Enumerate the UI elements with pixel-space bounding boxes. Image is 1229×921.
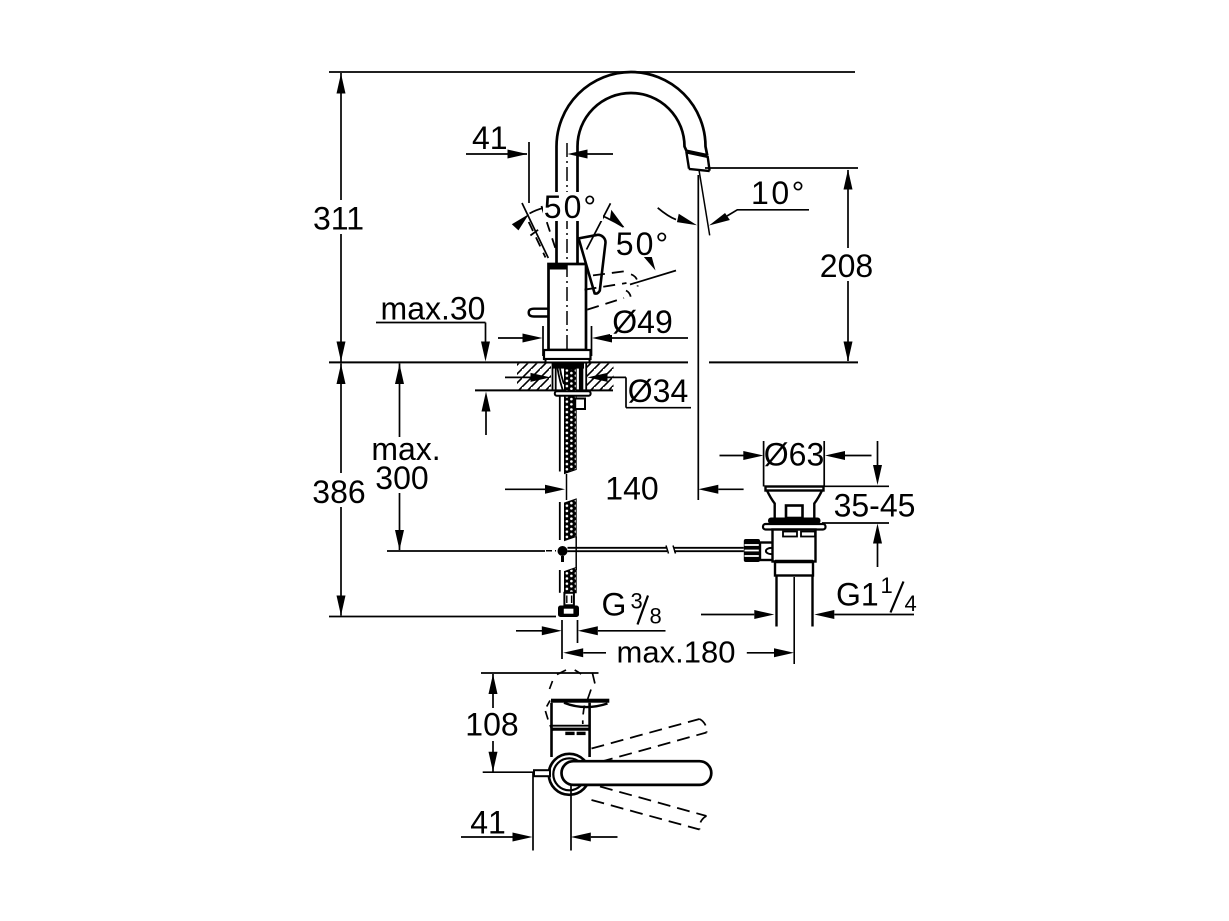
dimension 41 (bottom) bbox=[461, 773, 618, 851]
drain centerline extension bbox=[793, 577, 795, 664]
svg-text:Ø63: Ø63 bbox=[764, 437, 824, 473]
label 35-45 bbox=[834, 488, 916, 524]
label 41 top bbox=[472, 120, 508, 156]
right dashed lever positions bbox=[585, 271, 638, 310]
label 10 deg bbox=[751, 175, 807, 211]
svg-text:1: 1 bbox=[881, 573, 893, 598]
faucet body bbox=[549, 264, 587, 350]
drain lift tab bbox=[786, 506, 803, 519]
plan base circle bbox=[549, 754, 590, 795]
dimension line Ø49 bbox=[498, 326, 688, 356]
dimension 140 bbox=[505, 474, 744, 500]
dimension 41 (top) bbox=[466, 142, 613, 203]
rod clevis bracket bbox=[760, 543, 777, 561]
svg-text:3: 3 bbox=[631, 589, 643, 614]
drain clamp flange bbox=[768, 518, 821, 525]
dimension 108 bbox=[489, 674, 498, 772]
plan top reference line bbox=[481, 672, 599, 674]
braided hose segment 3 bbox=[560, 568, 576, 593]
water stream 10-degree slant line bbox=[699, 170, 710, 235]
svg-text:10°: 10° bbox=[751, 175, 807, 211]
braided hose segment 2 bbox=[560, 499, 576, 541]
shank left wall bbox=[553, 363, 556, 390]
rotation indicator arc bbox=[658, 208, 699, 229]
label 208 bbox=[819, 248, 875, 284]
mounting stud block bbox=[575, 399, 585, 410]
plan body column bbox=[552, 703, 590, 757]
label G1 1/4 bbox=[836, 573, 917, 616]
dimension 35-45 bbox=[822, 441, 889, 567]
svg-text:140: 140 bbox=[605, 471, 658, 507]
deck thickness lower arrow bbox=[482, 392, 491, 436]
dimension line Ø34 with label shelf bbox=[505, 373, 691, 408]
label 50 deg no.1 bbox=[543, 189, 603, 225]
svg-text:208: 208 bbox=[820, 248, 873, 284]
bottom reference line (386 datum) bbox=[329, 616, 556, 618]
dimension Ø63 bbox=[720, 441, 872, 487]
black stud strip bbox=[579, 369, 583, 391]
drain funnel cone bbox=[767, 491, 822, 518]
drain funnel rim bbox=[766, 487, 824, 491]
svg-text:max.180: max.180 bbox=[617, 635, 736, 670]
dimension 208 line bbox=[844, 170, 853, 362]
svg-text:41: 41 bbox=[472, 120, 508, 156]
dimension G 3/8 bbox=[516, 620, 666, 659]
plan spout outlet bar bbox=[551, 699, 609, 724]
label G 3/8 bbox=[602, 587, 662, 629]
solid lever axis line bbox=[587, 203, 611, 249]
label Ø49 bbox=[610, 304, 676, 340]
label Ø63 bbox=[764, 437, 824, 473]
label max.30 bbox=[381, 291, 486, 327]
drain tailpipe bbox=[777, 576, 813, 627]
label 140 bbox=[602, 471, 662, 507]
label 50 deg no.2 bbox=[616, 226, 673, 262]
deck bottom line bbox=[475, 389, 613, 391]
braided hose segment 1 bbox=[560, 369, 576, 474]
label max.180 bbox=[617, 635, 736, 670]
table surface line bbox=[329, 361, 858, 363]
10-degree leader bbox=[707, 210, 809, 230]
label max.300 bbox=[371, 431, 441, 496]
50-degree no.2 arrowhead and boundary bbox=[630, 251, 676, 285]
dimension 386 line bbox=[337, 364, 346, 616]
label Ø34 bbox=[628, 373, 688, 409]
svg-text:108: 108 bbox=[465, 707, 518, 743]
svg-text:Ø49: Ø49 bbox=[612, 304, 672, 340]
svg-text:Ø34: Ø34 bbox=[628, 373, 688, 409]
svg-text:35-45: 35-45 bbox=[834, 488, 916, 524]
svg-text:311: 311 bbox=[313, 201, 364, 237]
plan bottom reference line bbox=[483, 771, 535, 773]
dimension G1 1/4 bbox=[701, 610, 914, 619]
seal curves bbox=[558, 369, 565, 391]
left 50-degree boundary line bbox=[522, 203, 548, 258]
spout outlet reference line bbox=[705, 167, 858, 169]
hose outline near tee bbox=[575, 537, 577, 571]
svg-text:G1: G1 bbox=[836, 577, 879, 613]
svg-text:8: 8 bbox=[650, 604, 662, 629]
swivel stop hook on body bbox=[529, 309, 548, 317]
top reference line (spout height datum) bbox=[329, 71, 855, 73]
drain lower flange bbox=[775, 562, 813, 576]
label 41 bottom bbox=[470, 805, 506, 841]
plan left pin bbox=[534, 770, 550, 776]
50-degree arc no.1 with arrowheads bbox=[511, 206, 629, 232]
faucet centerline bbox=[566, 143, 568, 356]
left dashed lever position bbox=[529, 206, 557, 258]
dimension max.300 line bbox=[395, 364, 404, 551]
dimension 311 line bbox=[337, 73, 346, 362]
plan dashed lever lower position bbox=[592, 787, 707, 830]
drain body bbox=[773, 530, 816, 562]
aerator at spout tip bbox=[686, 152, 709, 172]
svg-text:4: 4 bbox=[905, 591, 917, 616]
solid lever handle bbox=[579, 235, 606, 294]
svg-text:G: G bbox=[602, 587, 627, 623]
vertical projection line from spout outlet bbox=[697, 175, 699, 500]
svg-text:300: 300 bbox=[375, 460, 428, 496]
label 108 bbox=[463, 707, 521, 743]
locknut washer below deck bbox=[555, 391, 591, 396]
svg-text:386: 386 bbox=[312, 474, 365, 510]
G 3/8 connector on hose end bbox=[558, 593, 579, 617]
shank right wall bbox=[585, 363, 587, 390]
shank seal black band bbox=[552, 363, 584, 368]
plan dashed lever upper position bbox=[592, 719, 707, 762]
spout gooseneck outline bbox=[557, 72, 708, 264]
drain pull rod bbox=[568, 546, 744, 554]
label 386 bbox=[312, 473, 367, 510]
hose tee junction bbox=[546, 546, 568, 562]
deck cross-section hatching bbox=[517, 363, 614, 390]
drain washer bbox=[763, 524, 826, 530]
41 extension line at axis (plan) bbox=[570, 776, 572, 851]
plan solid lever bbox=[562, 761, 712, 785]
svg-text:50°: 50° bbox=[616, 226, 670, 262]
body base flange bbox=[544, 350, 591, 363]
dashed swivel spout outline (plan) bbox=[545, 670, 595, 731]
svg-text:50°: 50° bbox=[544, 189, 598, 225]
rod knurled nut bbox=[744, 539, 760, 562]
dimension max.180 bbox=[563, 648, 794, 657]
svg-text:max.30: max.30 bbox=[381, 291, 486, 327]
max.30 leader bbox=[376, 323, 490, 362]
svg-text:41: 41 bbox=[470, 805, 506, 841]
label 311 bbox=[312, 200, 366, 237]
reference line at hose tee level bbox=[387, 550, 545, 552]
